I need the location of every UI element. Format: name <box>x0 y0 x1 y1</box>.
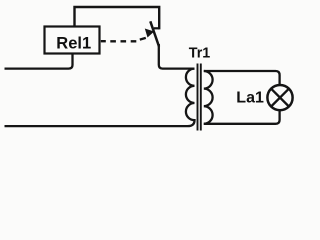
mechanical link dashed wire <box>101 38 146 41</box>
wire <box>5 54 73 69</box>
svg-text:Tr1: Tr1 <box>189 45 211 61</box>
switch S1 fixed contact tick <box>154 27 159 29</box>
wire <box>204 110 280 124</box>
transformer Tr1 core <box>198 64 201 131</box>
wire <box>159 44 195 69</box>
lamp La1 <box>267 85 292 110</box>
relay Rel1 <box>45 27 100 54</box>
transformer Tr1 secondary winding <box>204 71 213 124</box>
wire <box>75 7 160 29</box>
svg-text:Rel1: Rel1 <box>56 35 91 53</box>
switch S1 lever <box>150 21 159 46</box>
transformer Tr1 primary winding <box>186 69 195 127</box>
wire <box>5 125 188 127</box>
svg-text:La1: La1 <box>236 90 264 107</box>
wire <box>204 71 280 85</box>
mechanical link arrowhead <box>145 29 154 38</box>
